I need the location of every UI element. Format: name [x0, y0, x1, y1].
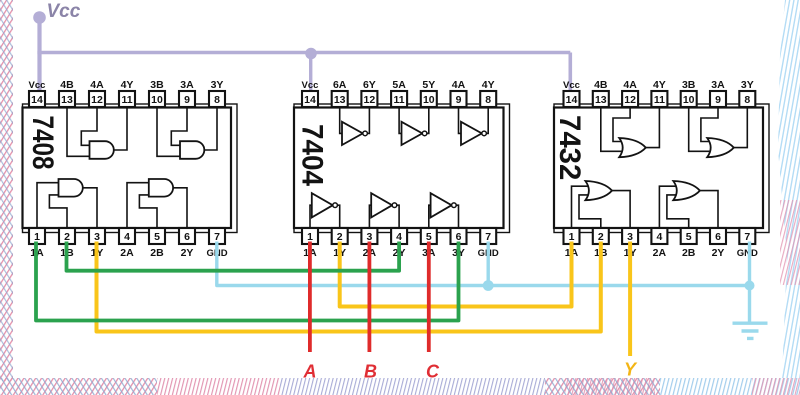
svg-text:7: 7 — [214, 231, 220, 243]
wire cyan 7404 GND drop — [487, 242, 490, 286]
svg-text:7: 7 — [744, 231, 750, 243]
svg-text:Vcc: Vcc — [29, 80, 46, 91]
svg-text:2B: 2B — [682, 247, 696, 259]
7404 pin 13 (6A) — [332, 79, 348, 107]
7408 pin 2 (1B) — [59, 228, 75, 259]
svg-text:14: 14 — [304, 94, 316, 106]
svg-text:12: 12 — [364, 94, 376, 106]
wire U2c (pin 5 to 6) input from pin — [429, 205, 431, 228]
wire U1a (pins 1,2 to 3) input B from pin (jog) — [49, 195, 67, 228]
svg-text:4: 4 — [396, 231, 402, 243]
IC 7408 outer outline — [23, 104, 238, 233]
svg-text:13: 13 — [61, 94, 73, 106]
svg-text:2: 2 — [337, 231, 343, 243]
wire U1b (pins 4,5 to 6) output to pin — [173, 188, 187, 228]
svg-text:2A: 2A — [120, 247, 134, 259]
svg-text:7432: 7432 — [553, 115, 586, 180]
7404 pin 11 (5A) — [391, 79, 407, 107]
label input B — [364, 362, 377, 382]
wire U3c (pins 10,9 to 8) input A from pin — [689, 107, 711, 151]
svg-text:5Y: 5Y — [422, 79, 435, 91]
svg-text:8: 8 — [485, 94, 491, 106]
wire U2e (pin 11 to 10) input from pin — [399, 107, 401, 133]
wire U3a (pins 1,2 to 3) input A from pin — [572, 186, 590, 228]
7432 pin 1 (1A) — [564, 228, 580, 259]
7432 pin 14 (Vcc) — [563, 80, 580, 107]
wire U2d (pin 9 to 8) output to pin — [486, 107, 488, 133]
svg-text:4: 4 — [124, 231, 130, 243]
7408 pin 8 (3Y) — [209, 79, 225, 107]
node ground junction at 7432 GND — [745, 281, 755, 291]
7404 pin 7 (GND) — [478, 228, 499, 259]
7432 pin 11 (4Y) — [651, 79, 667, 107]
svg-text:14: 14 — [31, 94, 43, 106]
7408 pin 12 (4A) — [89, 79, 105, 107]
ground symbol — [733, 323, 768, 338]
wire U1b (pins 4,5 to 6) input B from pin (jog) — [139, 195, 157, 228]
OR gate U3a (pins 1,2 to 3) — [585, 181, 612, 200]
7432 pin 12 (4A) — [622, 79, 638, 107]
svg-text:4Y: 4Y — [121, 79, 134, 91]
7408 pin 10 (3B) — [149, 79, 165, 107]
svg-text:3Y: 3Y — [741, 79, 754, 91]
wire U2d (pin 9 to 8) input from pin — [459, 107, 462, 133]
svg-text:5A: 5A — [392, 79, 406, 91]
svg-text:6: 6 — [456, 231, 462, 243]
7432 pin 5 (2B) — [681, 228, 697, 259]
7432 pin 4 (2A) — [651, 228, 667, 259]
svg-text:5: 5 — [154, 231, 160, 243]
IC 7408 part number label — [27, 116, 61, 170]
svg-text:2: 2 — [598, 231, 604, 243]
svg-text:4B: 4B — [60, 79, 74, 91]
node Vcc junction at 7404 branch — [305, 48, 317, 60]
svg-text:3Y: 3Y — [211, 79, 224, 91]
wire U1d (pins 13,12 to 11) input B from pin (jog) — [81, 107, 97, 145]
OR gate U3d (pins 13,12 to 11) — [619, 138, 646, 157]
7408 pin 4 (2A) — [119, 228, 135, 259]
wire U2e (pin 11 to 10) output to pin — [427, 107, 429, 133]
7408 pin 9 (3A) — [179, 79, 195, 107]
IC 7432 body — [554, 108, 763, 229]
power net Vcc supply dot — [33, 11, 46, 24]
label Vcc — [47, 1, 81, 22]
svg-text:4Y: 4Y — [653, 79, 666, 91]
svg-text:6: 6 — [715, 231, 721, 243]
svg-text:1: 1 — [34, 231, 40, 243]
svg-text:4A: 4A — [452, 79, 466, 91]
wire U1c (pins 10,9 to 8) output to pin — [204, 107, 217, 150]
AND gate U1c (pins 10,9 to 8) — [180, 141, 204, 159]
wire yellow net 7404-1Y to 7432-1A — [340, 242, 572, 307]
wire U2c (pin 5 to 6) output to pin — [456, 205, 458, 228]
wire Vcc vertical to 7408 pin 14 — [37, 17, 41, 91]
IC 7408 body — [23, 108, 232, 229]
7432 pin 8 (3Y) — [739, 79, 755, 107]
svg-text:12: 12 — [624, 94, 636, 106]
7432 pin 2 (1B) — [593, 228, 609, 259]
svg-text:13: 13 — [595, 94, 607, 106]
svg-text:3B: 3B — [682, 79, 696, 91]
svg-text:5: 5 — [686, 231, 692, 243]
wire U3d (pins 13,12 to 11) output to pin — [646, 107, 660, 148]
svg-text:3: 3 — [366, 231, 372, 243]
svg-text:A: A — [303, 362, 317, 382]
svg-text:3A: 3A — [711, 79, 725, 91]
wire cyan ground bus — [217, 242, 750, 286]
svg-text:1: 1 — [569, 231, 575, 243]
svg-text:11: 11 — [394, 94, 405, 106]
svg-text:8: 8 — [744, 94, 750, 106]
svg-text:Vcc: Vcc — [47, 1, 81, 22]
7432 pin 7 (GND) — [737, 228, 758, 259]
7404 pin 9 (4A) — [451, 79, 467, 107]
inverter U2c (pin 5 to 6) — [431, 193, 457, 217]
svg-text:3A: 3A — [180, 79, 194, 91]
AND gate U1b (pins 4,5 to 6) — [149, 179, 173, 197]
svg-text:7: 7 — [485, 231, 491, 243]
node ground junction at 7404 GND — [483, 280, 494, 291]
svg-text:11: 11 — [121, 94, 132, 106]
wire U3d (pins 13,12 to 11) input B from pin (jog) — [613, 107, 630, 142]
wire U3c (pins 10,9 to 8) input B from pin (jog) — [701, 107, 718, 142]
svg-text:2Y: 2Y — [181, 247, 194, 259]
7404 pin 1 (1A) — [302, 228, 318, 259]
label output Y — [624, 360, 638, 380]
wire U2b (pin 3 to 4) output to pin — [397, 205, 399, 228]
7408 pin 14 (Vcc) — [29, 80, 46, 107]
7404 pin 3 (2A) — [361, 228, 377, 259]
IC 7404 body — [294, 108, 504, 229]
svg-text:4Y: 4Y — [482, 79, 495, 91]
label input A — [303, 362, 317, 382]
7408 pin 3 (1Y) — [89, 228, 105, 259]
wire yellow net 7408-1Y to 7432-1B — [97, 242, 601, 332]
7408 pin 13 (4B) — [59, 79, 75, 107]
svg-text:7404: 7404 — [295, 124, 328, 186]
wire red input B to 7404-2A — [367, 242, 371, 353]
wire U1d (pins 13,12 to 11) output to pin — [114, 107, 127, 150]
7432 pin 13 (4B) — [593, 79, 609, 107]
wire U2b (pin 3 to 4) input from pin — [369, 205, 371, 228]
7432 pin 3 (1Y) — [622, 228, 638, 259]
svg-text:3: 3 — [94, 231, 100, 243]
wire U1c (pins 10,9 to 8) input A from pin — [157, 107, 180, 156]
inverter U2a (pin 1 to 2) — [312, 193, 338, 217]
wire green net 7404-2Y to 7408-1B — [67, 242, 400, 271]
svg-text:10: 10 — [151, 94, 163, 106]
inverter U2e (pin 11 to 10) — [402, 122, 427, 145]
svg-text:13: 13 — [334, 94, 346, 106]
OR gate U3b (pins 4,5 to 6) — [673, 181, 700, 200]
svg-text:2Y: 2Y — [712, 247, 725, 259]
svg-text:4: 4 — [656, 231, 662, 243]
label input C — [426, 362, 440, 382]
7408 pin 6 (2Y) — [179, 228, 195, 259]
svg-text:B: B — [364, 362, 377, 382]
wire yellow output Y from 7432-1Y — [628, 242, 632, 357]
7432 pin 6 (2Y) — [710, 228, 726, 259]
svg-text:6: 6 — [184, 231, 190, 243]
wire U3b (pins 4,5 to 6) input A from pin — [659, 186, 677, 228]
svg-text:11: 11 — [654, 94, 665, 106]
wire U3b (pins 4,5 to 6) output to pin — [700, 191, 718, 228]
wire red input C to 7404-3A — [427, 242, 431, 353]
OR gate U3c (pins 10,9 to 8) — [707, 138, 734, 157]
svg-text:9: 9 — [456, 94, 462, 106]
wire U2a (pin 1 to 2) input from pin — [310, 205, 312, 228]
svg-text:GND: GND — [737, 248, 758, 259]
wire U1d (pins 13,12 to 11) input A from pin — [67, 107, 90, 156]
7432 pin 9 (3A) — [710, 79, 726, 107]
AND gate U1d (pins 13,12 to 11) — [90, 141, 114, 159]
wire U3d (pins 13,12 to 11) input A from pin — [601, 107, 623, 151]
svg-text:2: 2 — [64, 231, 70, 243]
7404 pin 14 (Vcc) — [302, 80, 319, 107]
svg-text:9: 9 — [715, 94, 721, 106]
svg-text:14: 14 — [566, 94, 578, 106]
svg-text:4A: 4A — [623, 79, 637, 91]
7404 pin 12 (6Y) — [361, 79, 377, 107]
svg-text:5: 5 — [426, 231, 432, 243]
svg-text:10: 10 — [423, 94, 435, 106]
inverter U2f (pin 13 to 12) — [342, 122, 367, 145]
svg-text:6Y: 6Y — [363, 79, 376, 91]
IC 7404 outer outline — [294, 104, 510, 233]
7408 pin 1 (1A) — [29, 228, 45, 259]
wire U1b (pins 4,5 to 6) input A from pin — [127, 183, 149, 228]
wire red input A to 7404-1A — [308, 242, 312, 353]
7432 pin 10 (3B) — [681, 79, 697, 107]
7404 pin 10 (5Y) — [421, 79, 437, 107]
7404 pin 5 (3A) — [421, 228, 437, 259]
IC 7432 part number label — [553, 115, 586, 180]
7404 pin 4 (2Y) — [391, 228, 407, 259]
svg-text:1: 1 — [307, 231, 313, 243]
7404 pin 6 (3Y) — [451, 228, 467, 259]
svg-text:2A: 2A — [653, 247, 667, 259]
svg-text:3: 3 — [627, 231, 633, 243]
svg-text:7408: 7408 — [27, 116, 61, 170]
svg-text:12: 12 — [91, 94, 103, 106]
svg-text:2B: 2B — [150, 247, 164, 259]
inverter U2b (pin 3 to 4) — [371, 193, 397, 217]
svg-text:4B: 4B — [594, 79, 608, 91]
svg-text:8: 8 — [214, 94, 220, 106]
wire U3a (pins 1,2 to 3) output to pin — [612, 191, 630, 228]
svg-text:4A: 4A — [90, 79, 104, 91]
svg-text:Vcc: Vcc — [302, 80, 319, 91]
wire U3c (pins 10,9 to 8) output to pin — [734, 107, 748, 148]
wire cyan 7432 GND drop to ground — [748, 242, 751, 324]
svg-text:6A: 6A — [333, 79, 347, 91]
wire U2a (pin 1 to 2) output to pin — [337, 205, 339, 228]
svg-text:Y: Y — [624, 360, 638, 380]
inverter U2d (pin 9 to 8) — [461, 122, 486, 145]
7408 pin 5 (2B) — [149, 228, 165, 259]
AND gate U1a (pins 1,2 to 3) — [59, 179, 83, 197]
7404 pin 8 (4Y) — [480, 79, 496, 107]
7404 pin 2 (1Y) — [332, 228, 348, 259]
wire U2f (pin 13 to 12) output to pin — [367, 107, 369, 133]
7408 pin 11 (4Y) — [119, 79, 135, 107]
IC 7432 outer outline — [554, 104, 769, 233]
wire U1c (pins 10,9 to 8) input B from pin (jog) — [171, 107, 187, 145]
wire green net 7404-3Y to 7408-1A — [36, 242, 459, 321]
wire Vcc horizontal bus — [37, 51, 570, 55]
wire U1a (pins 1,2 to 3) output to pin — [83, 188, 97, 228]
wire Vcc drop to 7432 pin 14 — [568, 53, 572, 92]
wire U3b (pins 4,5 to 6) input B from pin (jog) — [667, 195, 689, 228]
svg-text:C: C — [426, 362, 440, 382]
wire U3a (pins 1,2 to 3) input B from pin (jog) — [579, 195, 601, 228]
svg-text:Vcc: Vcc — [563, 80, 580, 91]
svg-text:3B: 3B — [150, 79, 164, 91]
7408 pin 7 (GND) — [206, 228, 227, 259]
wire Vcc drop to 7404 pin 14 — [309, 53, 312, 92]
wire U1a (pins 1,2 to 3) input A from pin — [37, 183, 59, 228]
wire U2f (pin 13 to 12) input from pin — [340, 107, 342, 133]
svg-text:9: 9 — [184, 94, 190, 106]
IC 7404 part number label — [295, 124, 328, 186]
svg-text:10: 10 — [683, 94, 695, 106]
